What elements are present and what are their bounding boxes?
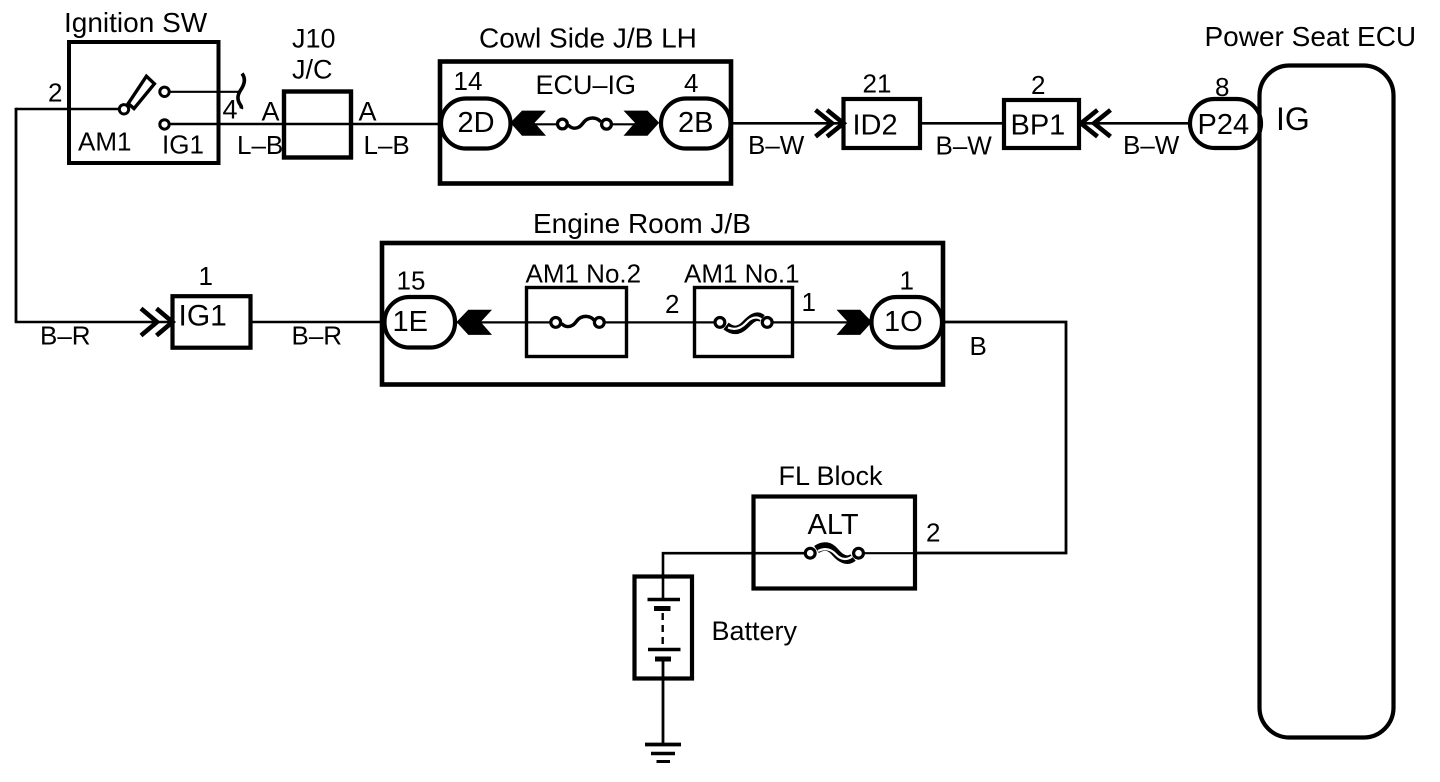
svg-text:B–W: B–W (936, 131, 993, 161)
battery plate short 2 (655, 657, 671, 662)
svg-text:B–R: B–R (40, 321, 91, 351)
connector cavity P24 (1190, 99, 1261, 148)
svg-text:L–B: L–B (237, 130, 283, 160)
fusible link AM1 No.1 symbol (726, 317, 762, 330)
svg-text:21: 21 (863, 69, 892, 99)
wire: ignition pin2 to left bus (16, 108, 120, 111)
battery plate long 2 (648, 648, 681, 651)
svg-text:J/C: J/C (292, 55, 333, 85)
fuse ECU-IG symbol (568, 118, 600, 128)
fuse AM1 No.2 box (527, 288, 627, 357)
svg-text:B: B (970, 331, 987, 361)
svg-text:A: A (359, 97, 377, 127)
ground symbol (645, 743, 681, 747)
svg-text:4: 4 (223, 95, 238, 125)
svg-text:Ignition SW: Ignition SW (64, 7, 208, 38)
svg-text:ECU–IG: ECU–IG (536, 70, 637, 100)
wire: ignition pin4 stub (168, 91, 239, 93)
wire: 1E arrow to AM1 No.2 fuse (453, 321, 550, 323)
svg-text:1: 1 (802, 287, 816, 317)
svg-text:2D: 2D (458, 107, 495, 139)
svg-text:P24: P24 (1198, 109, 1250, 141)
svg-text:A: A (262, 97, 280, 127)
svg-text:ALT: ALT (808, 509, 859, 541)
svg-text:2: 2 (48, 78, 62, 108)
svg-text:AM1 No.2: AM1 No.2 (526, 259, 642, 289)
connector cavity 2D (441, 99, 511, 149)
switch contact IG1 (160, 120, 169, 129)
svg-text:2B: 2B (678, 107, 713, 139)
svg-text:1: 1 (900, 266, 914, 296)
svg-text:AM1: AM1 (78, 127, 131, 157)
switch contact AM1 (119, 105, 128, 114)
svg-text:AM1 No.1: AM1 No.1 (684, 259, 800, 289)
svg-text:IG: IG (1276, 101, 1310, 137)
svg-text:4: 4 (684, 68, 698, 98)
wire: left vertical bus (15, 108, 18, 322)
connector cavity 1E (385, 297, 456, 348)
battery plate long 1 (648, 598, 681, 601)
arrow into 2D (510, 111, 546, 136)
svg-text:J10: J10 (292, 24, 336, 54)
svg-text:2: 2 (926, 518, 940, 548)
wire: 2B to ID2 (B-W) (731, 122, 844, 125)
svg-text:L–B: L–B (364, 130, 410, 160)
wire: IG1 box to 1E (B-R) (250, 321, 385, 324)
junction connector J10 (284, 92, 351, 158)
svg-text:Engine Room J/B: Engine Room J/B (533, 208, 751, 239)
arrow into 2B (624, 111, 660, 136)
arrow into 1O (837, 310, 873, 335)
battery plate short 1 (654, 606, 671, 611)
svg-text:Cowl Side J/B LH: Cowl Side J/B LH (479, 23, 697, 54)
svg-text:Power Seat ECU: Power Seat ECU (1205, 21, 1417, 52)
wire: 2D arrow to ECU-IG fuse (533, 123, 558, 125)
wire: IG1 contact to J10 to 2D (L-B) (168, 123, 442, 126)
wire: battery negative to ground (662, 660, 665, 744)
fuse AM1 No.2 symbol (562, 316, 594, 326)
wire: FL block through-wire right (864, 552, 916, 554)
wire: ECU-IG fuse to 2B arrow (606, 123, 637, 125)
ignition switch box SW1 (69, 42, 219, 163)
svg-text:FL Block: FL Block (779, 461, 884, 491)
wire: ID2 to BP1 (B-W) (919, 122, 1005, 125)
battery BT1 (635, 577, 693, 679)
junction block Cowl Side J/B (440, 62, 731, 184)
fusible link ALT symbol (817, 546, 854, 559)
battery dashed center (662, 613, 664, 647)
ECU U1 body (1260, 66, 1394, 738)
connector cavity 2B (661, 99, 731, 149)
svg-text:Battery: Battery (712, 616, 798, 646)
wire: BP1 to P24 (B-W) (1078, 122, 1191, 125)
svg-text:1O: 1O (884, 306, 923, 338)
svg-text:IG1: IG1 (179, 300, 227, 333)
svg-text:B–W: B–W (748, 130, 805, 160)
connector ID2 (844, 99, 921, 148)
switch lever (128, 76, 154, 108)
svg-text:1E: 1E (393, 306, 428, 338)
arrow into 1E (457, 310, 493, 335)
connector IG1 (173, 296, 251, 348)
wire: AM1 No.2 fuse to AM1 No.1 link (605, 321, 714, 323)
fusible link block FL (754, 497, 916, 589)
fusible link AM1 No.1 box (695, 288, 793, 357)
svg-text:IG1: IG1 (162, 130, 204, 160)
svg-text:14: 14 (454, 66, 483, 96)
wire: bus to IG1 box (B-R) (15, 321, 173, 324)
svg-text:B–W: B–W (1123, 130, 1180, 160)
svg-text:2: 2 (665, 289, 679, 319)
wire: AM1 No.1 link to 1O (773, 321, 873, 323)
wire: FL block through-wire left to battery (663, 553, 804, 577)
junction block Engine Room J/B (382, 243, 943, 385)
switch contact pin4 (160, 87, 169, 96)
connector BP1 (1004, 100, 1079, 148)
wire: 1O to corner (B) (916, 322, 1066, 553)
connector cavity 1O (872, 297, 943, 348)
svg-text:1: 1 (199, 261, 213, 291)
chevrons into ID2 (816, 110, 844, 137)
svg-text:BP1: BP1 (1011, 110, 1066, 142)
harness break squiggle (238, 74, 244, 109)
battery internal lead top (662, 578, 665, 598)
svg-text:15: 15 (397, 266, 426, 296)
svg-text:ID2: ID2 (853, 110, 898, 142)
chevrons out of BP1 (1081, 110, 1111, 137)
svg-text:2: 2 (1031, 70, 1045, 100)
svg-text:B–R: B–R (292, 321, 343, 351)
chevrons into IG1 (141, 309, 173, 336)
